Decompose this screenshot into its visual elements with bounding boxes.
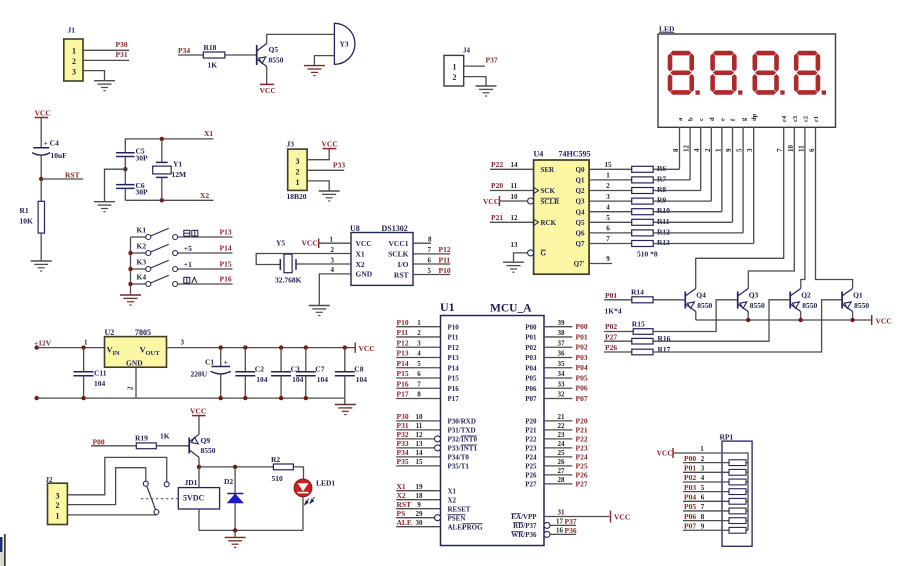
svg-text:10uF: 10uF [51, 151, 68, 160]
wire U1 P00 pin 39 [544, 326, 572, 328]
svg-text:P02: P02 [684, 473, 696, 482]
svg-text:9: 9 [606, 255, 610, 263]
svg-text:PS: PS [397, 509, 406, 518]
svg-text:Q2: Q2 [801, 290, 811, 299]
relay JD1 5VDC [178, 488, 219, 509]
wire P26 to R17 [604, 351, 632, 353]
svg-text:K3: K3 [137, 258, 147, 267]
svg-text:VCC: VCC [190, 407, 206, 416]
wire R16 to Q2 base [653, 300, 790, 341]
svg-text:3: 3 [56, 491, 60, 500]
svg-text:19: 19 [416, 483, 424, 491]
svg-text:P32/: P32/ [448, 436, 462, 444]
wire U8 pin8 stub [413, 242, 431, 244]
wire display pin dp [753, 127, 755, 243]
svg-text:7: 7 [776, 148, 784, 152]
wire Q5 collector to buzzer [267, 34, 335, 43]
svg-text:P27: P27 [576, 479, 588, 488]
wire Q2 emitter [800, 312, 802, 321]
svg-text:P21: P21 [525, 427, 537, 435]
wire U1 RESET pin 9 [396, 508, 440, 510]
svg-text:P01: P01 [525, 334, 537, 342]
wire U1 P33 pin 13 [396, 447, 434, 449]
svg-text:U2: U2 [105, 328, 115, 337]
bubble G [528, 250, 534, 256]
resistor R17 [632, 349, 653, 355]
wire display pin c4 to Q4 [696, 127, 784, 288]
svg-text:R18: R18 [204, 43, 217, 52]
svg-text:X2: X2 [448, 496, 457, 504]
svg-text:P15: P15 [220, 260, 232, 269]
svg-text:P33/: P33/ [448, 445, 462, 453]
wire U1 P21 pin 22 [544, 429, 572, 431]
wire U1 P26 pin 27 [544, 474, 572, 476]
bottom rail relay [199, 529, 303, 531]
svg-text:P30: P30 [397, 412, 409, 421]
svg-text:P12: P12 [397, 338, 409, 347]
svg-text:P04: P04 [576, 363, 588, 372]
svg-text:1: 1 [453, 62, 457, 71]
svg-text:P24: P24 [525, 454, 537, 462]
svg-text:I/O: I/O [398, 260, 409, 269]
wire J2 pin3 to NO contact [67, 457, 166, 494]
svg-text:c3: c3 [792, 115, 799, 122]
svg-text:P30: P30 [116, 40, 128, 49]
svg-text:P16: P16 [220, 275, 232, 284]
svg-text:30P: 30P [136, 188, 149, 197]
key label row4 [184, 277, 197, 283]
svg-text:P01: P01 [605, 291, 617, 300]
svg-text:11: 11 [511, 182, 518, 190]
svg-text:5VDC: 5VDC [183, 494, 205, 503]
wire relay to rail [198, 509, 200, 530]
svg-text:VCC: VCC [483, 197, 499, 206]
svg-text:R11: R11 [657, 217, 670, 226]
svg-text:SCK: SCK [541, 187, 556, 195]
wire U8 pin3 X2 [296, 263, 351, 265]
svg-text:Y3: Y3 [340, 40, 349, 49]
resistor R14 [632, 297, 653, 303]
IC U1 MCU_A [441, 316, 545, 546]
svg-text:104: 104 [317, 375, 329, 384]
svg-text:2: 2 [296, 168, 300, 177]
svg-text:VCC1: VCC1 [389, 239, 409, 248]
resistor RP1-6 [729, 508, 746, 514]
svg-text:1: 1 [84, 339, 88, 347]
wire display pin c1 to Q1 [816, 127, 853, 288]
svg-text:P16: P16 [448, 385, 460, 393]
svg-text:K4: K4 [137, 273, 147, 282]
crystal Y1 12M [161, 139, 163, 163]
wire RP1 P03 pin 5 [683, 491, 729, 493]
svg-text:33: 33 [558, 380, 566, 388]
svg-text:15: 15 [416, 458, 424, 466]
svg-text:VCC: VCC [614, 513, 630, 522]
svg-text:24: 24 [558, 440, 566, 448]
svg-text:1: 1 [700, 445, 704, 453]
wire R19 to Q9 base [156, 445, 189, 447]
svg-text:74HC595: 74HC595 [559, 150, 591, 159]
wire K4 to P16 [178, 283, 233, 285]
resistor RP1-7 [729, 518, 746, 524]
svg-text:8: 8 [701, 513, 705, 521]
wire U8 pin1 VCC [319, 242, 351, 244]
wire R11 to display pin [653, 221, 732, 223]
resistor R12 [632, 230, 654, 236]
screen fragment bottom-left corner [0, 537, 3, 552]
svg-text:P12: P12 [448, 344, 460, 352]
svg-text:C1: C1 [205, 358, 214, 367]
connector J4 [444, 55, 464, 86]
svg-text:J4: J4 [463, 47, 471, 55]
svg-text:Y5: Y5 [276, 239, 285, 248]
svg-text:P34/T0: P34/T0 [448, 454, 470, 462]
svg-text:X1: X1 [204, 129, 213, 138]
svg-text:14: 14 [416, 449, 424, 457]
wire U4 SCK P20 [490, 190, 534, 192]
wire J3 pin3 to VCC [307, 149, 329, 160]
wire U1 P01 pin 38 [544, 336, 572, 338]
wire Q4 emitter [695, 312, 697, 321]
resistor RP1-5 [729, 498, 746, 504]
svg-text:Q9: Q9 [201, 436, 211, 445]
resistor R15 [633, 329, 653, 335]
wire R9 to display pin [653, 200, 711, 202]
svg-text:Q1: Q1 [576, 177, 585, 185]
svg-text:8: 8 [417, 391, 421, 399]
svg-text:LED1: LED1 [316, 479, 335, 488]
svg-text:2: 2 [704, 148, 712, 152]
resistor pack RP1 [722, 441, 752, 546]
svg-text:10K: 10K [20, 217, 34, 226]
svg-text:VCC: VCC [260, 86, 276, 95]
svg-text:P07: P07 [576, 394, 588, 403]
svg-text:G: G [541, 250, 547, 258]
svg-text:18: 18 [416, 492, 424, 500]
relay actuator dashed link [141, 498, 178, 500]
transistor Q5 8550 [256, 45, 258, 65]
svg-text:37: 37 [558, 339, 566, 347]
svg-text:3: 3 [701, 465, 705, 473]
junction key bus [128, 282, 132, 286]
svg-text:P07: P07 [684, 521, 696, 530]
svg-text:P23: P23 [525, 445, 537, 453]
svg-text:R9: R9 [657, 196, 666, 205]
capacitor C11 104 [81, 345, 85, 349]
svg-text:32.768K: 32.768K [275, 276, 302, 285]
wire to C5 [124, 139, 126, 153]
svg-text:K2: K2 [137, 242, 147, 251]
wire buzzer to ground [314, 56, 334, 66]
svg-text:3: 3 [606, 193, 610, 201]
svg-text:X2: X2 [397, 491, 406, 500]
svg-text:13: 13 [416, 440, 424, 448]
resistor R2 510 [273, 464, 293, 470]
svg-text:9: 9 [417, 501, 421, 509]
svg-text:7: 7 [417, 380, 421, 388]
key label row1 [184, 230, 198, 236]
wire U1 P17 pin 8 [396, 398, 440, 400]
node X2-Y1 [160, 198, 164, 202]
svg-text:+5: +5 [184, 244, 192, 253]
ground buzzer [304, 65, 325, 67]
svg-text:RST: RST [397, 500, 412, 509]
emitter rail VCC [696, 319, 872, 321]
wire U2 out [167, 347, 356, 349]
svg-text:7805: 7805 [135, 328, 151, 337]
svg-text:15: 15 [605, 161, 613, 169]
svg-text:510: 510 [272, 474, 284, 483]
svg-text:X2: X2 [356, 260, 365, 269]
7-seg digit 1 [668, 51, 694, 95]
wire R14 to Q4 base [653, 299, 685, 301]
svg-text:6: 6 [417, 370, 421, 378]
svg-text:10: 10 [511, 193, 519, 201]
power VCC right of rail [354, 343, 356, 353]
wire C4 to RST node [40, 156, 42, 180]
wire K3 to P15 [178, 268, 233, 270]
svg-text:P07: P07 [525, 395, 537, 403]
wire R7 to display pin [653, 179, 690, 181]
svg-text:29: 29 [416, 510, 424, 518]
wire +12V to U2 [37, 347, 105, 349]
svg-text:R1: R1 [20, 206, 29, 215]
svg-text:4: 4 [417, 350, 421, 358]
wire U4 Q1 pin 1 [589, 179, 632, 181]
svg-text:104: 104 [256, 375, 268, 384]
svg-text:R6: R6 [657, 164, 666, 173]
svg-text:MCU_A: MCU_A [490, 303, 532, 315]
wire U4 Q3 pin 3 [589, 200, 632, 202]
svg-text:14: 14 [511, 161, 519, 169]
IC U4 74HC595 [534, 160, 590, 274]
wire RP1 P05 pin 7 [683, 510, 729, 512]
wire Q5 emitter to VCC [266, 67, 268, 85]
wire J2 pin2 to NC contact [67, 468, 145, 505]
svg-text:8: 8 [428, 236, 432, 244]
svg-text:R12: R12 [657, 227, 670, 236]
capacitor C3 104 [279, 345, 283, 349]
wire C6 to X2 rail [124, 188, 126, 200]
svg-text:7: 7 [606, 235, 610, 243]
svg-text:3: 3 [746, 148, 754, 152]
svg-text:X2: X2 [200, 191, 209, 200]
svg-text:32: 32 [558, 391, 566, 399]
svg-text:RP1: RP1 [720, 432, 734, 441]
decimal point digit 4 [822, 90, 826, 94]
svg-text:P15: P15 [448, 375, 460, 383]
svg-text:30P: 30P [136, 154, 149, 163]
svg-text:+: + [224, 358, 228, 367]
wire RP1 P07 pin 9 [683, 529, 729, 531]
svg-text:R13: R13 [657, 238, 670, 247]
wire U4 RCK P21 [490, 221, 534, 223]
ground U4 [503, 261, 524, 263]
svg-text:8550: 8550 [854, 301, 869, 310]
svg-text:22: 22 [558, 422, 566, 430]
ground keys [120, 294, 141, 296]
connector J1 [64, 39, 83, 81]
wire LED1 to rail [302, 497, 304, 531]
wire U4 Q4 pin 4 [589, 211, 632, 213]
capacitor C8 104 [343, 345, 347, 349]
svg-text:U4: U4 [534, 150, 544, 159]
ground U8 [309, 305, 330, 307]
buzzer Y3 [334, 23, 355, 64]
svg-text:U8: U8 [350, 224, 360, 233]
svg-text:2: 2 [417, 329, 421, 337]
wire U8 pin6 P11 [413, 263, 450, 265]
decimal point digit 3 [780, 90, 784, 94]
svg-text:30: 30 [416, 519, 424, 527]
svg-text:PROG: PROG [462, 523, 483, 531]
svg-text:2: 2 [606, 182, 610, 190]
wire U1 P10 pin 1 [396, 326, 440, 328]
wire P00 to R19 [91, 445, 136, 447]
svg-text:P27: P27 [605, 333, 617, 342]
svg-text:8550: 8550 [802, 301, 817, 310]
svg-text:J1: J1 [68, 26, 76, 35]
svg-text:17: 17 [556, 518, 564, 526]
svg-text:220U: 220U [191, 370, 208, 379]
svg-text:P26: P26 [605, 343, 617, 352]
wire U1 X1 pin 19 [396, 490, 440, 492]
svg-text:PSEN: PSEN [448, 514, 466, 522]
svg-text:8550: 8550 [269, 56, 284, 65]
svg-text:4: 4 [606, 203, 610, 211]
node D2 bottom [233, 528, 237, 532]
svg-text:K1: K1 [137, 226, 147, 235]
svg-text:3: 3 [296, 157, 300, 166]
svg-text:P17: P17 [397, 390, 409, 399]
svg-text:P00: P00 [525, 323, 537, 331]
svg-text:6: 6 [606, 225, 610, 233]
wire U1 P12 pin 3 [396, 346, 440, 348]
svg-text:c: c [698, 118, 705, 121]
svg-text:P21: P21 [491, 213, 503, 222]
svg-text:P35: P35 [397, 457, 409, 466]
svg-text:P26: P26 [525, 472, 537, 480]
svg-text:VCC: VCC [322, 139, 338, 148]
svg-text:7: 7 [428, 246, 432, 254]
svg-text:5: 5 [606, 214, 610, 222]
svg-text:J3: J3 [287, 140, 295, 149]
svg-text:8: 8 [672, 148, 680, 152]
svg-text:RST: RST [65, 171, 80, 180]
svg-text:P25: P25 [576, 461, 588, 470]
wire U1 P32 pin 12 [396, 438, 434, 440]
wire node to R2 [199, 466, 273, 468]
svg-text:P06: P06 [525, 385, 537, 393]
svg-text:P10: P10 [439, 266, 451, 275]
wire J2 pin1 to common [67, 514, 156, 516]
svg-text:P25: P25 [525, 463, 537, 471]
svg-text:P03: P03 [576, 353, 588, 362]
svg-text:2: 2 [56, 501, 60, 510]
svg-text:P15: P15 [397, 369, 409, 378]
ground J1 [94, 80, 115, 82]
svg-text:P13: P13 [220, 228, 232, 237]
svg-text:INT1: INT1 [461, 445, 477, 453]
svg-text:P20: P20 [525, 418, 537, 426]
wire VCC to C4 [40, 118, 42, 148]
svg-text:P05: P05 [525, 375, 537, 383]
wire J1 pin1 P30 [83, 49, 129, 51]
svg-text:P00: P00 [684, 454, 696, 463]
svg-text:Q5: Q5 [576, 219, 585, 227]
svg-text:VCC: VCC [657, 449, 673, 458]
ground power rail [335, 404, 356, 406]
svg-text:13: 13 [511, 241, 519, 249]
svg-text:9: 9 [701, 522, 705, 530]
svg-text:25: 25 [558, 449, 566, 457]
wire U4 Q7' pin 9 [589, 263, 612, 265]
wire U1 P05 pin 34 [544, 377, 572, 379]
wire J4 pin2 to ground [464, 77, 486, 86]
resistor R7 [632, 177, 654, 183]
resistor R11 [632, 219, 654, 225]
svg-text:31: 31 [558, 509, 566, 517]
capacitor C2 104 [243, 345, 247, 349]
bubble P32/INT0 [435, 436, 441, 442]
svg-text:5: 5 [417, 360, 421, 368]
wire U1 PSEN pin 29 [396, 517, 434, 519]
svg-text:Q7': Q7' [574, 260, 585, 268]
wire Q3 emitter [747, 312, 749, 321]
decimal point digit 1 [696, 90, 700, 94]
svg-text:P13: P13 [397, 349, 409, 358]
svg-text:P31: P31 [397, 421, 409, 430]
svg-text:R8: R8 [657, 185, 666, 194]
svg-text:11: 11 [797, 145, 805, 152]
wire U1 P15 pin 6 [396, 377, 440, 379]
svg-text:RST: RST [394, 270, 409, 279]
svg-text:510 *8: 510 *8 [637, 250, 658, 259]
svg-text:1: 1 [714, 148, 722, 152]
svg-text:RCK: RCK [541, 219, 557, 227]
resistor R13 [632, 241, 654, 247]
ground J4 [476, 85, 497, 87]
svg-text:P04: P04 [525, 364, 537, 372]
wire U4 Q5 pin 5 [589, 221, 632, 223]
svg-text:3: 3 [181, 339, 185, 347]
svg-text:R14: R14 [631, 288, 644, 297]
wire U4 SER P22 [490, 168, 534, 170]
wire display pin c2 to Q2 [801, 127, 805, 288]
svg-text:SCLR: SCLR [541, 198, 561, 206]
wire P02 to R15 [604, 331, 633, 333]
svg-text:1: 1 [606, 172, 610, 180]
svg-text:3: 3 [331, 257, 335, 265]
svg-text:c4: c4 [781, 115, 788, 122]
svg-text:dp: dp [751, 113, 758, 121]
junction key bus [128, 267, 132, 271]
svg-text:J2: J2 [46, 476, 54, 484]
wire U8 pin2 X1 [256, 254, 351, 265]
svg-text:8550: 8550 [750, 301, 765, 310]
svg-text:23: 23 [558, 431, 566, 439]
svg-text:10: 10 [416, 413, 424, 421]
node X1-Y1 [160, 137, 164, 141]
wire U8 pin7 P12 [413, 253, 450, 255]
wire U1 P07 pin 32 [544, 398, 572, 400]
capacitor C5 30P [116, 152, 135, 154]
IC U8 DS1302 [351, 233, 413, 286]
resistor R19 1K [136, 443, 156, 449]
svg-text:P10: P10 [448, 323, 460, 331]
svg-text:P03: P03 [525, 354, 537, 362]
svg-text:P21: P21 [576, 425, 588, 434]
